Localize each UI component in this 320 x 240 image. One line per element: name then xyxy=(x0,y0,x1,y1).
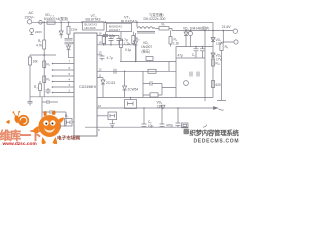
svg-text:DK-0222x-300: DK-0222x-300 xyxy=(144,17,166,21)
svg-text:10μ: 10μ xyxy=(148,124,154,128)
svg-text:2: 2 xyxy=(69,88,71,92)
svg-text:R₈: R₈ xyxy=(136,37,140,41)
svg-text:2C113: 2C113 xyxy=(106,81,115,85)
svg-text:12: 12 xyxy=(99,67,103,71)
svg-text:5: 5 xyxy=(69,72,71,76)
svg-text:R₇: R₇ xyxy=(162,23,165,27)
svg-text:R₅: R₅ xyxy=(65,114,69,118)
svg-text:R₄: R₄ xyxy=(34,85,38,89)
svg-text:1.2k: 1.2k xyxy=(124,42,130,46)
svg-text:4.7μ: 4.7μ xyxy=(107,56,113,60)
svg-text:1N4007×4(整流): 1N4007×4(整流) xyxy=(44,16,69,21)
svg-text:16V: 16V xyxy=(157,104,164,108)
svg-text:DEDECMS.COM: DEDECMS.COM xyxy=(194,138,240,144)
svg-text:21.6V: 21.6V xyxy=(222,25,232,29)
svg-text:220k: 220k xyxy=(71,28,78,32)
svg-text:HIC1017: HIC1017 xyxy=(109,28,120,32)
svg-text:16: 16 xyxy=(99,32,103,36)
svg-text:620: 620 xyxy=(216,83,222,87)
svg-text:R₁₀: R₁₀ xyxy=(216,62,221,66)
svg-text:CD2498HI: CD2498HI xyxy=(79,85,96,89)
svg-text:www.dzsc.com: www.dzsc.com xyxy=(2,141,37,146)
svg-text:15: 15 xyxy=(99,41,103,45)
svg-text:2.2μ: 2.2μ xyxy=(109,34,115,38)
svg-text:11: 11 xyxy=(99,74,102,78)
svg-text:2CW54: 2CW54 xyxy=(128,88,139,92)
svg-text:470p: 470p xyxy=(166,124,173,128)
svg-text:HIC1016: HIC1016 xyxy=(85,26,96,30)
svg-text:C₇: C₇ xyxy=(192,53,195,57)
svg-text:10k: 10k xyxy=(33,60,39,64)
svg-text:1.2k: 1.2k xyxy=(173,42,179,46)
svg-text:0.1μ: 0.1μ xyxy=(125,48,131,52)
svg-text:BU1KDA3: BU1KDA3 xyxy=(121,20,137,24)
svg-text:4: 4 xyxy=(69,77,71,81)
svg-text:织梦内容管理系统: 织梦内容管理系统 xyxy=(190,128,240,137)
svg-text:10: 10 xyxy=(98,104,102,108)
svg-text:13: 13 xyxy=(99,51,103,55)
svg-text:R₃: R₃ xyxy=(47,78,51,82)
svg-text:47μ: 47μ xyxy=(178,54,184,58)
svg-text:220V: 220V xyxy=(35,30,42,34)
svg-text:9: 9 xyxy=(98,128,100,132)
svg-text:7: 7 xyxy=(69,60,71,64)
svg-text:VD₆ 1N4148(保护): VD₆ 1N4148(保护) xyxy=(183,26,209,31)
svg-text:BU1KTA3: BU1KTA3 xyxy=(86,18,101,22)
svg-text:17V: 17V xyxy=(216,42,223,46)
svg-text:(稳压): (稳压) xyxy=(142,48,151,53)
svg-text:3: 3 xyxy=(69,83,71,87)
svg-text:电子市场网: 电子市场网 xyxy=(57,135,80,142)
svg-text:R₉: R₉ xyxy=(225,45,229,49)
svg-text:220V~: 220V~ xyxy=(25,15,36,19)
svg-text:6: 6 xyxy=(69,66,71,70)
svg-text:4.7k: 4.7k xyxy=(36,44,42,48)
svg-text:R₂: R₂ xyxy=(47,63,51,67)
svg-text:AC: AC xyxy=(29,11,34,15)
svg-text:R₁: R₁ xyxy=(38,39,41,43)
